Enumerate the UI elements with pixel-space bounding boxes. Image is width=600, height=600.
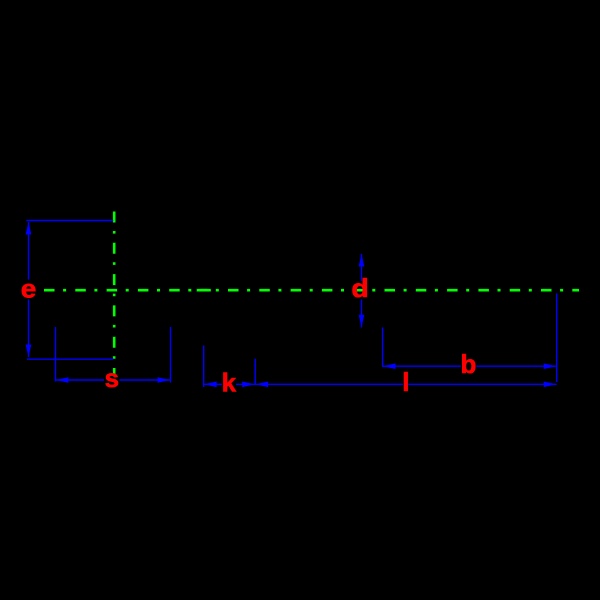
svg-text:d: d <box>351 273 368 303</box>
svg-text:b: b <box>461 349 477 379</box>
svg-text:k: k <box>222 367 237 397</box>
svg-text:s: s <box>105 363 119 393</box>
svg-text:l: l <box>402 367 409 397</box>
svg-text:e: e <box>21 273 37 303</box>
